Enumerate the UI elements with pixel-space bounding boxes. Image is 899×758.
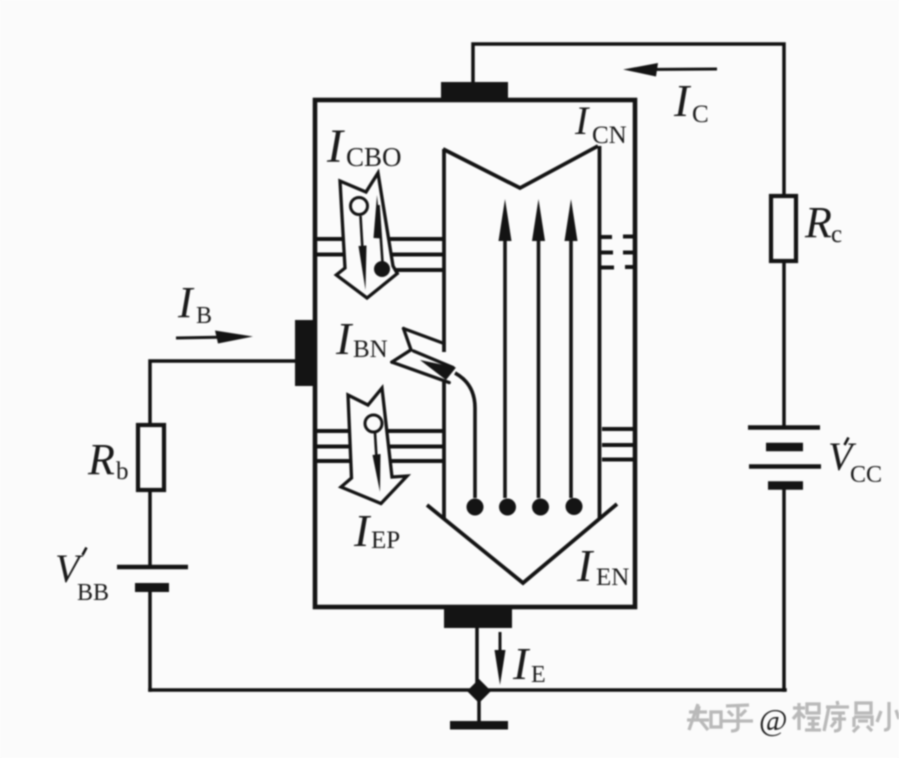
svg-text:CN: CN [592,122,627,149]
svg-text:B: B [196,303,212,329]
svg-text:CC: CC [850,462,882,488]
svg-text:I: I [177,278,195,327]
svg-text:I: I [673,75,692,126]
svg-text:I: I [512,638,531,689]
svg-text:I: I [335,313,354,364]
svg-text:E: E [531,662,546,688]
svg-text:I: I [326,120,345,173]
svg-text:R: R [804,198,832,247]
svg-text:BN: BN [353,336,388,363]
svg-text:I: I [353,505,372,556]
svg-text:C: C [692,101,709,128]
svg-text:EP: EP [371,527,400,554]
svg-text:@: @ [759,702,788,737]
svg-text:BB: BB [77,580,109,606]
svg-text:b: b [116,458,129,485]
svg-text:EN: EN [596,564,629,591]
svg-text:I: I [574,98,590,143]
svg-text:I: I [576,540,595,591]
svg-text:c: c [831,221,842,248]
svg-text:R: R [87,435,115,484]
svg-text:CBO: CBO [346,142,402,172]
